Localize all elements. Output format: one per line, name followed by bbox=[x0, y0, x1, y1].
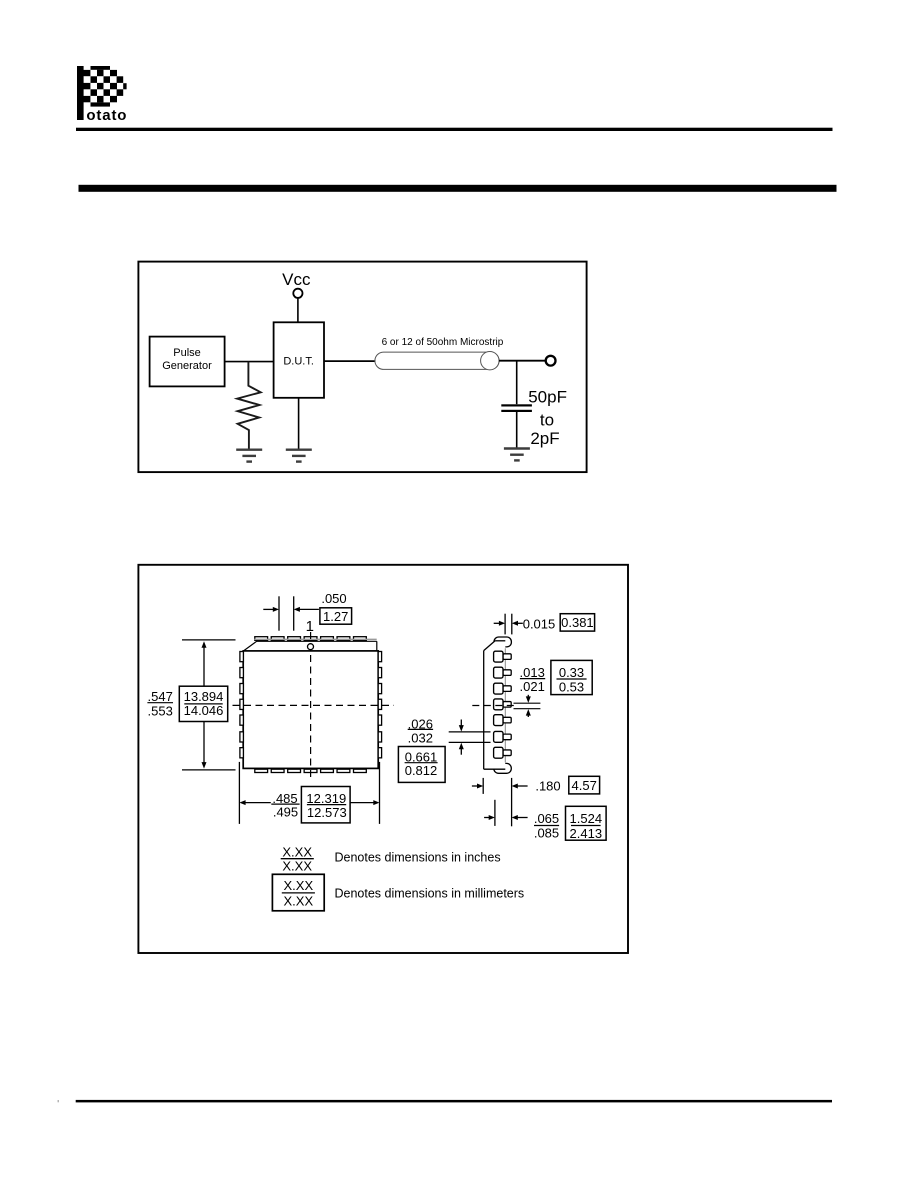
dim lead width pointer arrows bbox=[460, 720, 462, 727]
pin pads left column bbox=[240, 652, 244, 758]
wire microstrip to output terminal bbox=[499, 360, 545, 362]
package top edge line bbox=[257, 640, 377, 642]
svg-text:13.894: 13.894 bbox=[184, 689, 224, 704]
dim pitch arrows bbox=[263, 608, 274, 610]
D.U.T. box U1 bbox=[274, 322, 324, 398]
svg-text:50pF: 50pF bbox=[528, 388, 567, 407]
figure 2 frame bbox=[138, 565, 628, 953]
svg-text:1.524: 1.524 bbox=[570, 811, 603, 826]
dim lead width pointer lines bbox=[449, 731, 491, 733]
dim pitch mm box 1.27 bbox=[320, 608, 352, 624]
dim lead foot arrows bbox=[484, 817, 490, 819]
dim lead tip pointer arrows bbox=[527, 695, 529, 698]
title thick bar bbox=[79, 185, 837, 192]
svg-text:6 or 12 of 50ohm Microstrip: 6 or 12 of 50ohm Microstrip bbox=[382, 337, 504, 348]
svg-text:X.XX: X.XX bbox=[283, 878, 313, 893]
svg-text:.180: .180 bbox=[535, 778, 560, 793]
dim lead foot tick bbox=[494, 800, 496, 826]
svg-text:4.57: 4.57 bbox=[572, 778, 597, 793]
pin pads top row bbox=[255, 637, 366, 641]
svg-text:0.812: 0.812 bbox=[405, 763, 438, 778]
svg-text:otato: otato bbox=[86, 107, 127, 124]
output terminal circle bbox=[546, 356, 556, 366]
logo Potato flag pixel mark bbox=[77, 66, 127, 120]
wire DUT to ground bbox=[298, 398, 300, 449]
pin 1 index circle bbox=[308, 644, 314, 650]
dim standoff mm box 4.57 bbox=[569, 776, 600, 794]
svg-text:Denotes dimensions in inches: Denotes dimensions in inches bbox=[335, 850, 501, 864]
svg-text:2.413: 2.413 bbox=[570, 826, 603, 841]
dim standoff arrows bbox=[472, 785, 478, 787]
dim body height extension lines bbox=[182, 639, 236, 641]
capacitor C-load plates bbox=[501, 404, 532, 406]
dim body width extension lines bbox=[238, 762, 240, 824]
side view center line (dashed) bbox=[472, 705, 517, 707]
ground (resistor) bbox=[236, 449, 262, 451]
dim lead tip mm box 0.33/0.53 bbox=[551, 660, 592, 694]
wire Vcc to DUT bbox=[297, 298, 299, 322]
svg-text:X.XX: X.XX bbox=[282, 858, 312, 873]
svg-text:Generator: Generator bbox=[162, 360, 212, 372]
microstrip right end circle bbox=[481, 352, 499, 370]
svg-text:0.015: 0.015 bbox=[523, 617, 556, 632]
svg-text:0.53: 0.53 bbox=[559, 679, 584, 694]
svg-text:.065: .065 bbox=[534, 811, 559, 826]
dim body height arrows bbox=[203, 647, 205, 686]
ground (capacitor) bbox=[504, 447, 530, 449]
pin pads bottom row bbox=[255, 769, 366, 772]
svg-text:0.381: 0.381 bbox=[561, 615, 594, 630]
dim lead foot mm box 1.524/2.413 bbox=[566, 806, 607, 840]
dim lead protrusion mm box 0.381 bbox=[560, 614, 594, 631]
svg-text:.495: .495 bbox=[273, 805, 298, 820]
resistor R1 (termination) bbox=[237, 362, 261, 449]
svg-text:.050: .050 bbox=[321, 591, 346, 606]
svg-text:D.U.T.: D.U.T. bbox=[283, 356, 314, 368]
svg-text:.085: .085 bbox=[534, 826, 559, 841]
dim body width mm box 12.319/12.573 bbox=[301, 787, 350, 823]
svg-text:Denotes dimensions in millimet: Denotes dimensions in millimeters bbox=[335, 887, 525, 901]
wire DUT to microstrip bbox=[324, 360, 376, 362]
package lid edge gray line bbox=[254, 638, 376, 640]
wire capacitor to ground bbox=[516, 412, 518, 448]
dim body height mm box 13.894/14.046 bbox=[179, 686, 227, 721]
svg-text:2pF: 2pF bbox=[530, 429, 559, 448]
node Vcc terminal circle bbox=[293, 289, 302, 298]
svg-text:Pulse: Pulse bbox=[173, 347, 201, 359]
svg-text:12.573: 12.573 bbox=[307, 805, 347, 820]
footer rule bbox=[76, 1100, 832, 1103]
dim lead protrusion ticks bbox=[504, 614, 506, 635]
svg-text:Vcc: Vcc bbox=[282, 270, 311, 289]
svg-text:1: 1 bbox=[306, 618, 314, 635]
svg-text:X.XX: X.XX bbox=[283, 894, 313, 909]
center line vertical (dashed) bbox=[310, 632, 312, 777]
J-leads (7) bbox=[494, 651, 512, 758]
svg-text:.013: .013 bbox=[520, 665, 545, 680]
microstrip transmission line body bbox=[375, 352, 499, 369]
dim body width arrows bbox=[245, 802, 271, 804]
svg-text:.547: .547 bbox=[148, 689, 173, 704]
side view bottom cap bbox=[494, 763, 512, 773]
side view body bbox=[484, 641, 506, 769]
svg-text:1.27: 1.27 bbox=[323, 609, 348, 624]
dim lead protrusion arrows bbox=[494, 622, 500, 624]
side view top cap bbox=[494, 637, 511, 647]
header thin rule bbox=[76, 128, 833, 131]
dim standoff ticks bbox=[482, 778, 484, 794]
svg-text:12.319: 12.319 bbox=[306, 791, 346, 806]
wire junction to capacitor bbox=[516, 361, 518, 405]
svg-text:14.046: 14.046 bbox=[184, 703, 224, 718]
center line horizontal (dashed) bbox=[233, 704, 394, 706]
dim lead tip pointer lines bbox=[514, 702, 541, 704]
svg-text:X.XX: X.XX bbox=[282, 844, 312, 859]
svg-text:.032: .032 bbox=[408, 730, 433, 745]
ground (DUT) bbox=[286, 449, 312, 451]
package top-right edge connector bbox=[376, 641, 378, 651]
pulse generator box bbox=[150, 337, 225, 387]
svg-text:.553: .553 bbox=[148, 703, 173, 718]
svg-text:.021: .021 bbox=[520, 679, 545, 694]
figure 1 frame bbox=[138, 262, 586, 473]
package chamfer (pin 1 corner) bbox=[243, 641, 256, 651]
wire pulse generator to DUT bbox=[225, 361, 274, 363]
side view body right edge bbox=[504, 648, 506, 762]
svg-text:to: to bbox=[540, 410, 554, 429]
legend mm box X.XX/X.XX bbox=[272, 874, 324, 911]
package main square body bbox=[243, 651, 378, 769]
dim lead width mm box 0.661/0.812 bbox=[398, 747, 445, 783]
footer stray dot bbox=[58, 1100, 60, 1102]
pin pads right column bbox=[378, 652, 381, 758]
dim pitch ticks bbox=[278, 596, 280, 630]
svg-text:0.33: 0.33 bbox=[559, 665, 584, 680]
